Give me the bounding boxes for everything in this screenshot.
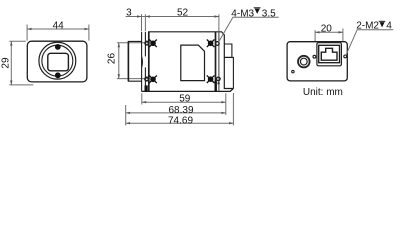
screw top-right head [207,40,215,48]
dim 29 arrow top [10,41,12,45]
label plate [181,45,205,81]
4-M3 leader line [219,17,279,42]
dim 52 arrow left [145,15,149,17]
dim 29 line [10,41,12,85]
dim 26 line [118,43,120,79]
dim 3 / 52 ext line A (x141.5) [141,14,143,31]
dim 59/68.39 ext right [225,93,227,115]
foot left [145,85,148,91]
body back inner thick line [215,32,217,92]
camera front body [27,41,87,82]
M2 screw hole left [313,55,316,58]
screw hole top-right (leader target) [216,42,220,46]
dim 68.39 line [126,112,226,114]
dim 74.69 line [126,122,234,124]
dim 74.69 ext right [232,93,234,125]
svg-text:20: 20 [321,23,333,34]
LED ring outer [298,56,310,68]
front plate back face [144,32,146,57]
RJ45 opening [319,45,340,62]
svg-text:3: 3 [126,8,132,19]
svg-text:74.69: 74.69 [168,115,193,126]
LED ring inner [300,58,307,65]
connector block (bottom back) [224,57,233,88]
svg-text:29: 29 [1,57,12,69]
body bottom edge [142,89,234,92]
depth symbol for M2 [379,21,385,27]
svg-text:59: 59 [179,93,191,104]
screw bottom-right head [207,75,215,83]
connector small rect (top back) [224,44,232,57]
dim 59 line [142,101,226,103]
dim 44 ext line left [26,25,28,41]
2-M2 leader line [346,30,393,56]
body top edge [148,32,233,89]
dim 74.69 arrows [126,122,130,124]
svg-text:52: 52 [177,7,189,18]
dim 26 arrow bottom [118,74,120,78]
screw top-left small [145,41,149,45]
lens mount outer circle [39,42,76,79]
dim 44 arrow right [85,28,89,30]
dim 59 ext left [141,93,143,104]
svg-text:26: 26 [107,53,118,65]
dim 68.39/74.69 ext left [125,105,127,125]
screw bottom-left head [149,76,157,84]
front plate arc bulge [141,57,144,68]
lens mount inner circle [42,45,73,76]
dim 20 ext right [342,29,344,41]
M2 screw hole right [344,55,347,58]
front plate front face [141,32,143,92]
body front inner thick line [148,32,150,92]
lens ring front edge thick [127,41,129,81]
dim 26 ext line bottom [117,78,150,80]
svg-text:4: 4 [386,21,392,32]
dim 29 ext line top [9,40,26,42]
small mark near back line [218,82,220,84]
lens ring (top view) [128,41,141,81]
back body [287,42,347,81]
sensor window [48,53,69,71]
screw top-left head [149,40,157,48]
dim 44 arrow left [27,28,31,30]
dim 3 / 52 ext line B (x145.4) [144,14,146,31]
dim 44 line [27,28,89,30]
svg-text:Unit: mm: Unit: mm [303,87,343,98]
screw dot top [55,44,61,50]
RJ45 housing outer [317,43,342,66]
svg-text:44: 44 [53,21,65,32]
dim 26 ext line top [117,42,150,44]
dim 3 and 52 shared line [126,16,219,18]
screw bottom-left small [145,77,149,81]
svg-text:3.5: 3.5 [262,8,276,19]
dim 29 arrow bottom [10,81,12,85]
svg-text:4-M3: 4-M3 [231,8,254,19]
foot right [215,81,217,92]
body back face line [218,32,220,92]
depth symbol for M3 [254,8,261,14]
dim 68.39 arrows [126,112,130,114]
dim 52 ext line right (x218.9) [218,14,220,31]
dim 59 arrows [142,101,146,103]
dim 20 arrows [315,31,319,33]
screw hole bottom-right [217,77,221,81]
dim 20 ext left [314,30,316,42]
screw dot bottom [55,72,61,78]
svg-text:2-M2: 2-M2 [356,21,379,32]
dim 29 ext line bottom [9,84,33,86]
dim 20 line [315,31,343,33]
dim 3 arrow (points right at x141.5) [137,15,141,17]
RJ45 plug shape [321,48,337,60]
corner hole [292,70,294,72]
dim 26 arrow top [118,43,120,47]
dim 52 arrow right [215,15,219,17]
dim 44 ext line right [88,25,90,41]
